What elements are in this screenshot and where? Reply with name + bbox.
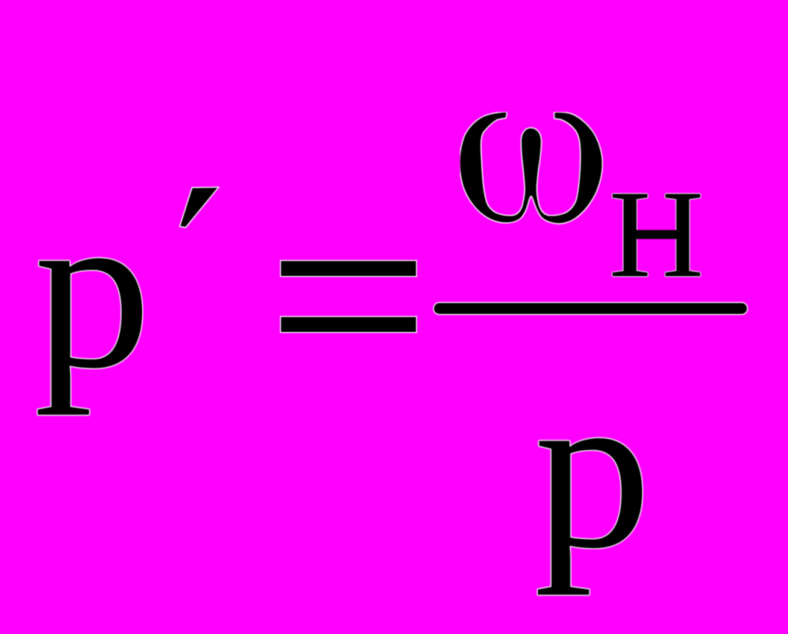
fraction bar bbox=[434, 303, 746, 314]
equals sign top bar bbox=[281, 261, 416, 276]
variable p (left side of equation) bbox=[34, 175, 151, 404]
equals sign bottom bar bbox=[281, 317, 416, 332]
subscript Cyrillic capital En (н) bbox=[609, 173, 704, 298]
omega (numerator), Symbol-font style bbox=[460, 112, 607, 225]
prime mark on p bbox=[175, 182, 225, 234]
H crossbar thickener bbox=[635, 230, 677, 238]
variable p (denominator) bbox=[534, 355, 651, 584]
